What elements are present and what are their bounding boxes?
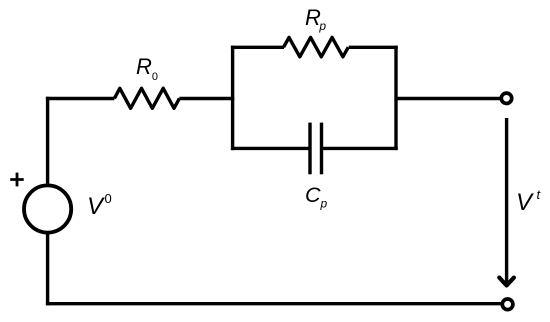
wire left vertical upper (source top lead) [46,97,49,186]
box bottom-right wire from capacitor [322,147,398,150]
box bottom-left wire to capacitor [231,147,310,150]
wire box to output terminal [396,97,500,100]
wire top-left horizontal to resistor R0 [46,97,115,100]
label R0 [136,54,158,82]
voltage source V0 circle [24,185,71,232]
label Vt [516,189,540,217]
box right vertical wire [394,46,397,151]
wire left vertical lower (source bottom lead) [46,233,49,306]
output terminal top (open circle) [501,93,511,103]
label Cp [305,183,327,210]
box top-left wire segment [231,46,284,49]
wire bottom horizontal [46,302,501,305]
label Rp [305,5,326,33]
resistor Rp zigzag [284,37,349,56]
box left vertical wire [231,46,234,151]
output terminal bottom (open circle) [502,299,513,310]
Vt arrowhead [499,278,514,286]
label V0 [87,193,112,221]
Vt arrow shaft [505,118,508,284]
capacitor Cp left plate [308,123,311,175]
resistor R0 zigzag [114,88,179,108]
plus sign of source polarity [10,173,24,187]
box top-right wire segment [349,46,398,49]
capacitor Cp right plate [320,123,323,175]
wire R0 to parallel box [179,97,234,100]
